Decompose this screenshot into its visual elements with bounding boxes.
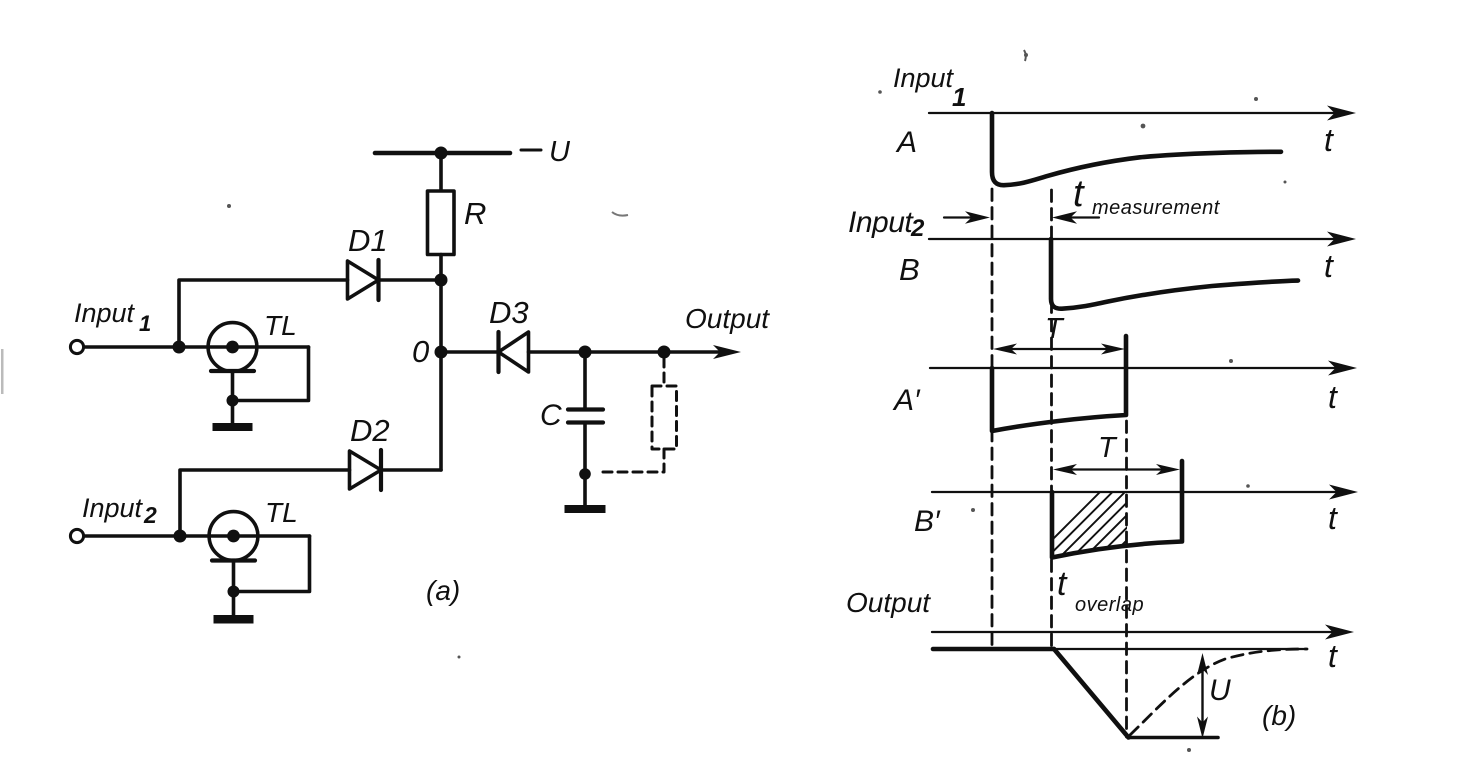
svg-text:(a): (a) xyxy=(426,575,460,606)
ground TL2 xyxy=(214,615,254,624)
svg-text:A: A xyxy=(895,126,917,159)
node dashed load junction xyxy=(658,346,671,359)
svg-text:Input: Input xyxy=(74,298,136,328)
svg-text:TL: TL xyxy=(264,310,297,341)
label Input2 (timing) xyxy=(848,206,925,242)
svg-text:D2: D2 xyxy=(350,413,390,448)
output slope xyxy=(1054,649,1129,738)
wire TL2 cathode down xyxy=(232,561,236,616)
capacitor C xyxy=(568,410,603,423)
svg-text:2: 2 xyxy=(143,502,157,528)
U arrow xyxy=(1197,653,1208,739)
svg-text:U: U xyxy=(1209,674,1231,707)
output arrowhead xyxy=(713,345,741,359)
junction TL2 feedback xyxy=(228,586,240,598)
label Input1 xyxy=(74,298,151,336)
tunnel element TL2 xyxy=(209,512,258,561)
supply rail -U xyxy=(375,151,510,156)
label -U xyxy=(521,149,541,152)
svg-text:R: R xyxy=(464,196,486,231)
dashed wire load to C bottom xyxy=(597,449,664,472)
junction TL1 feedback xyxy=(227,395,239,407)
diode D3 xyxy=(499,332,529,372)
wire D1 cathode to node xyxy=(379,278,442,282)
axis t row3 xyxy=(930,367,1337,369)
label t overlap xyxy=(1057,565,1144,616)
svg-text:B: B xyxy=(899,252,920,287)
svg-text:t: t xyxy=(1328,379,1338,415)
axis t row4 xyxy=(932,491,1338,493)
diode D1 xyxy=(348,260,379,300)
output trace level thick xyxy=(933,647,1054,652)
ground below C xyxy=(565,505,606,513)
wire riser to D2 anode xyxy=(180,470,350,536)
svg-text:t: t xyxy=(1057,565,1068,603)
feedback wire TL1 xyxy=(233,347,309,401)
dashed vertical line 2 xyxy=(1050,190,1053,649)
T arrow row4 xyxy=(1053,464,1180,475)
svg-text:t: t xyxy=(1324,122,1334,158)
dashed vertical line 1 xyxy=(991,189,994,649)
svg-text:T: T xyxy=(1045,313,1065,345)
pulse B prime xyxy=(1052,461,1182,558)
wire D3 to output xyxy=(529,350,724,354)
input 2 terminal xyxy=(70,529,83,542)
svg-text:Input: Input xyxy=(82,493,144,523)
svg-text:overlap: overlap xyxy=(1075,594,1144,616)
node on -U rail xyxy=(435,147,448,160)
label Input1 (timing) xyxy=(893,63,966,112)
wire input1 through TL1 xyxy=(85,345,309,349)
svg-text:1: 1 xyxy=(952,82,966,112)
dashed vertical line 3 xyxy=(1125,421,1128,737)
waveform A xyxy=(992,113,1281,185)
svg-text:t: t xyxy=(1324,248,1334,284)
svg-text:t: t xyxy=(1073,173,1085,215)
node 0 xyxy=(435,346,448,359)
timing diagram panel (b) xyxy=(846,63,1358,739)
waveform B xyxy=(1051,239,1298,309)
svg-text:TL: TL xyxy=(265,497,298,528)
svg-text:Input: Input xyxy=(893,63,955,93)
tunnel element TL1 xyxy=(208,323,257,372)
pulse A prime xyxy=(992,336,1126,431)
axis t row5 xyxy=(932,631,1334,633)
wire rail to resistor R xyxy=(439,153,443,191)
feedback wire TL2 xyxy=(234,536,310,592)
diode D2 xyxy=(350,450,382,490)
svg-text:Output: Output xyxy=(846,587,931,618)
resistor R xyxy=(428,191,455,255)
wire riser to D1 anode xyxy=(179,280,348,347)
svg-text:D1: D1 xyxy=(348,223,388,258)
output bottom line xyxy=(1129,736,1219,740)
dashed wire to load resistor xyxy=(663,358,666,386)
svg-text:T: T xyxy=(1098,432,1118,464)
svg-text:Output: Output xyxy=(685,303,770,334)
svg-text:t: t xyxy=(1328,500,1338,536)
T arrow row3 xyxy=(993,344,1125,355)
dashed recovery curve xyxy=(1130,649,1307,735)
dashed load resistor xyxy=(652,386,677,449)
wire R to D1 node xyxy=(439,255,443,281)
axis t row2 xyxy=(929,238,1336,240)
junction input1/riser xyxy=(173,341,186,354)
svg-text:D3: D3 xyxy=(489,295,529,330)
svg-text:C: C xyxy=(540,399,562,432)
svg-text:measurement: measurement xyxy=(1092,197,1221,219)
svg-text:Input: Input xyxy=(848,206,914,239)
junction C bottom xyxy=(579,468,591,480)
svg-text:U: U xyxy=(549,136,571,168)
wire input2 through TL2 xyxy=(85,534,310,538)
wire 0 node to D3 xyxy=(441,350,499,354)
wire node to capacitor C xyxy=(583,352,587,408)
vertical wire node to 0 node to D2 corner xyxy=(439,280,443,470)
svg-text:(b): (b) xyxy=(1262,700,1296,731)
label Input2 xyxy=(82,493,157,528)
wire TL1 cathode down xyxy=(231,371,235,423)
svg-text:t: t xyxy=(1328,638,1338,674)
t measurement arrows xyxy=(944,211,1099,223)
svg-text:1: 1 xyxy=(139,311,151,336)
axis t row1 xyxy=(929,112,1336,114)
label t measurement xyxy=(1073,173,1221,219)
svg-text:B′: B′ xyxy=(914,505,941,538)
node C junction xyxy=(579,346,592,359)
input 1 terminal xyxy=(70,340,83,353)
svg-text:0: 0 xyxy=(412,334,429,369)
output zero level thin xyxy=(1054,648,1307,650)
junction input2/riser xyxy=(174,530,187,543)
node D1/R junction xyxy=(435,274,448,287)
ground TL1 xyxy=(213,423,253,431)
scan specks xyxy=(1,50,1287,752)
wire C to ground xyxy=(583,425,587,506)
svg-text:A′: A′ xyxy=(892,384,921,417)
wire D2 cathode to vertical xyxy=(381,468,441,472)
svg-text:2: 2 xyxy=(910,215,925,242)
